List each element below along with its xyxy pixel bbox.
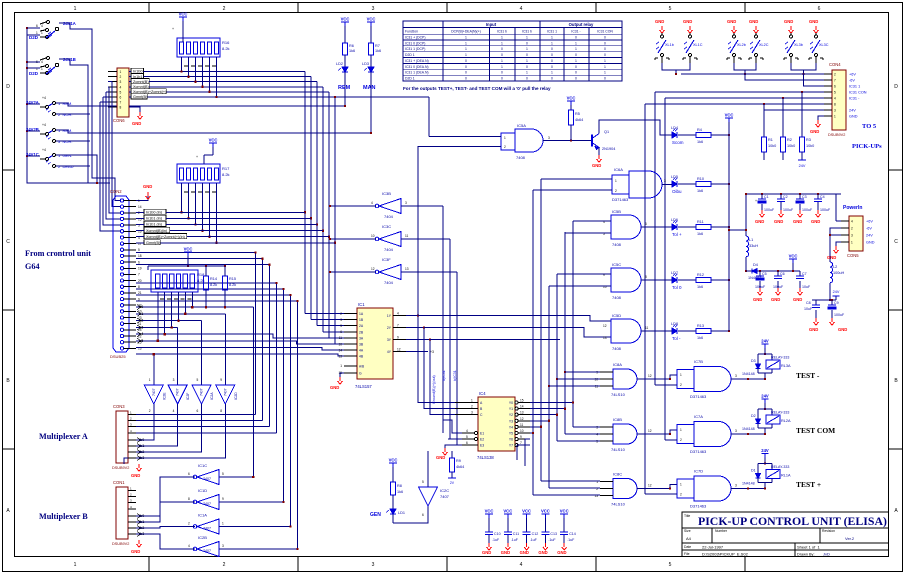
svg-text:GND: GND	[849, 114, 858, 118]
pin	[120, 260, 123, 263]
svg-text:2: 2	[615, 189, 617, 193]
wire 1Y to IC4 A and IC5D	[406, 316, 455, 403]
svg-text:1: 1	[615, 179, 617, 183]
svg-text:2: 2	[223, 6, 226, 12]
gate IC5B 7408	[611, 215, 641, 239]
capacitor C8	[815, 300, 817, 305]
wire IC8B input hooks	[573, 426, 600, 428]
svg-text:1: 1	[680, 428, 682, 432]
pin output 2Y	[393, 327, 406, 329]
svg-text:14: 14	[138, 205, 142, 209]
svg-text:1: 1	[604, 65, 606, 69]
pin	[455, 414, 478, 416]
gate IC5C 7408	[611, 268, 641, 292]
wire CON4 long row 104	[645, 103, 824, 105]
svg-text:1: 1	[465, 41, 467, 45]
svg-text:74LS10: 74LS10	[611, 502, 626, 507]
net label Zcmnt(B)	[131, 79, 149, 84]
wire vertical bus	[297, 301, 299, 549]
svg-text:7407: 7407	[203, 549, 211, 553]
svg-text:1: 1	[680, 373, 682, 377]
svg-text:IC31 1 (DEA.N): IC31 1 (DEA.N)	[405, 71, 429, 75]
svg-text:7407: 7407	[223, 388, 227, 396]
svg-text:5: 5	[834, 90, 836, 94]
svg-text:Date: Date	[684, 545, 691, 549]
wire vertical bus	[310, 77, 312, 320]
svg-text:+: +	[196, 155, 198, 159]
svg-text:R8: R8	[397, 484, 402, 488]
svg-text:GND: GND	[132, 121, 141, 126]
svg-text:A4: A4	[686, 536, 692, 541]
wire	[136, 420, 263, 422]
svg-text:74LS138: 74LS138	[477, 455, 494, 460]
svg-text:C13: C13	[550, 532, 557, 536]
pin	[108, 76, 117, 78]
wire rowC to IC1 pin	[136, 347, 344, 350]
wire	[195, 183, 197, 225]
svg-text:15: 15	[138, 217, 142, 221]
wire row	[129, 76, 131, 78]
svg-text:3: 3	[173, 378, 175, 382]
pin output 1Y	[393, 315, 406, 317]
svg-text:0: 0	[575, 53, 577, 57]
svg-text:D3: D3	[751, 359, 756, 363]
wire CON4 long row 92	[655, 91, 824, 93]
pin	[128, 521, 136, 523]
dashes under RN2	[184, 191, 188, 193]
svg-text:IC31 -: IC31 -	[849, 96, 860, 100]
wire power rail top	[746, 193, 841, 195]
svg-text:10k0: 10k0	[768, 144, 776, 148]
pin output 3Y	[393, 339, 406, 341]
svg-text:6: 6	[197, 409, 199, 413]
wire gate feed vertical x565	[564, 232, 566, 434]
connector CON2	[113, 196, 129, 352]
pin select	[344, 365, 357, 367]
svg-text:Y4: Y4	[509, 425, 513, 429]
wire	[678, 226, 696, 228]
capacitor C5	[759, 270, 761, 272]
svg-text:2Y: 2Y	[387, 326, 392, 330]
wire 3Y to IC4 C	[406, 340, 455, 415]
svg-text:3: 3	[851, 233, 853, 237]
pin enable	[474, 431, 477, 434]
svg-text:7: 7	[138, 273, 140, 277]
pin output Y3	[515, 419, 518, 422]
svg-text:G64: G64	[25, 262, 40, 271]
svg-text:24V: 24V	[761, 394, 769, 399]
svg-text:R1: R1	[768, 138, 773, 142]
svg-text:7408: 7408	[612, 295, 622, 300]
svg-text:6: 6	[818, 6, 821, 12]
svg-text:0: 0	[526, 53, 528, 57]
wire IC2C input	[427, 451, 429, 487]
svg-text:In1b1 (in): In1b1 (in)	[146, 223, 163, 227]
pin	[128, 414, 136, 416]
svg-text:2: 2	[851, 226, 853, 230]
svg-text:15: 15	[520, 399, 524, 403]
svg-text:b(IC31: b(IC31	[442, 370, 446, 381]
dashes under RN1	[184, 65, 188, 67]
wire gate output	[637, 430, 677, 434]
svg-text:1N4148: 1N4148	[742, 372, 755, 376]
svg-text:2: 2	[680, 383, 682, 387]
wire to IC1 input	[329, 337, 344, 339]
svg-text:R5: R5	[575, 112, 580, 116]
resistor R14	[204, 276, 209, 290]
pin	[120, 254, 123, 257]
svg-text:DCP(B)+DEA(N)(+): DCP(B)+DEA(N)(+)	[451, 29, 481, 33]
pin	[120, 217, 123, 220]
net label Gmnt(B)	[144, 240, 160, 245]
svg-text:IC7A: IC7A	[694, 414, 703, 419]
svg-text:IC1A: IC1A	[198, 513, 207, 518]
svg-text:4k64: 4k64	[456, 465, 464, 469]
led LD2	[339, 67, 349, 72]
gate IC6A	[612, 175, 629, 194]
svg-text:13: 13	[405, 267, 409, 271]
resistor R8	[391, 482, 396, 495]
wire rowC to IC1 pin and inverter t1	[136, 354, 344, 356]
svg-text:GND: GND	[143, 184, 152, 189]
svg-text:IC31 CON: IC31 CON	[597, 29, 613, 33]
svg-text:0: 0	[604, 41, 606, 45]
svg-text:Title: Title	[684, 514, 690, 518]
svg-text:C4: C4	[820, 195, 825, 199]
svg-text:1k6: 1k6	[697, 140, 703, 144]
svg-text:GND: GND	[811, 219, 820, 224]
pin	[128, 445, 136, 447]
wire output	[641, 279, 672, 281]
svg-text:DSUB9V2: DSUB9V2	[112, 466, 129, 470]
pin output Y5	[515, 431, 518, 434]
svg-text:1: 1	[526, 59, 528, 63]
svg-text:+: +	[755, 199, 757, 203]
led LD8	[672, 325, 678, 335]
switch 24V2B	[40, 129, 56, 143]
buffer IC1D 7407	[197, 495, 219, 510]
svg-text:IC2B: IC2B	[198, 535, 207, 540]
svg-text:IC31 1 (DCP): IC31 1 (DCP)	[405, 47, 425, 51]
wire	[678, 279, 696, 281]
svg-text:0: 0	[604, 36, 606, 40]
capacitor C3	[799, 193, 801, 195]
svg-text:DSUB25: DSUB25	[110, 354, 126, 359]
pin	[120, 340, 123, 343]
svg-text:5: 5	[669, 6, 672, 12]
svg-text:1: 1	[680, 483, 682, 487]
pin	[120, 223, 123, 226]
svg-text:IC5C: IC5C	[612, 262, 621, 267]
wire vertical from inverters	[442, 206, 444, 433]
svg-text:3Y: 3Y	[387, 338, 392, 342]
svg-text:5: 5	[422, 480, 424, 484]
switch 24V1A	[40, 21, 59, 39]
wire vertical bus	[283, 289, 285, 502]
svg-text:13: 13	[603, 336, 607, 340]
wire CON4 rows	[681, 73, 824, 75]
svg-text:R3: R3	[806, 138, 811, 142]
border reference ticks top/bottom	[148, 3, 150, 13]
svg-text:1k6: 1k6	[697, 232, 703, 236]
svg-text:8.2k: 8.2k	[210, 283, 217, 287]
resistor R9 below IC4	[451, 451, 453, 458]
wire	[711, 183, 729, 185]
svg-text:0: 0	[551, 77, 553, 81]
svg-text:2: 2	[340, 312, 342, 316]
svg-text:2: 2	[504, 145, 506, 149]
pin	[344, 319, 357, 321]
dashes under RN3	[160, 298, 164, 300]
svg-text:8: 8	[138, 285, 140, 289]
connector CON6	[117, 68, 129, 117]
wire	[525, 438, 530, 440]
svg-text:4: 4	[851, 219, 853, 223]
wire	[56, 140, 90, 142]
pin	[128, 451, 136, 453]
svg-text:1: 1	[465, 53, 467, 57]
wire row	[136, 224, 144, 226]
diode D4 1N4007	[746, 270, 752, 272]
svg-text:VCC: VCC	[725, 113, 734, 118]
capacitor C9	[831, 299, 833, 301]
border row ticks left/right	[3, 169, 15, 171]
svg-text:1: 1	[501, 65, 503, 69]
svg-text:20: 20	[138, 279, 142, 283]
pin	[120, 279, 123, 282]
svg-text:XL1C: XL1C	[693, 43, 703, 47]
wire	[209, 183, 211, 237]
svg-text:1: 1	[851, 240, 853, 244]
wire	[148, 265, 225, 267]
svg-text:0: 0	[465, 77, 467, 81]
svg-text:IC3C: IC3C	[382, 224, 391, 229]
svg-text:RL3A: RL3A	[781, 364, 791, 368]
wire input	[219, 548, 298, 550]
svg-text:0: 0	[501, 47, 503, 51]
svg-text:Revision: Revision	[822, 529, 835, 533]
svg-text:VCC: VCC	[567, 96, 576, 101]
led LD6	[672, 221, 678, 231]
svg-text:+4: +4	[42, 123, 46, 127]
svg-text:IC8C: IC8C	[613, 472, 622, 477]
svg-text:1: 1	[74, 6, 77, 12]
capacitor C2	[780, 193, 782, 195]
svg-text:5: 5	[197, 378, 199, 382]
svg-text:IC31 CON: IC31 CON	[849, 90, 867, 94]
wire row	[129, 91, 131, 93]
svg-text:3: 3	[548, 136, 550, 140]
wire	[27, 130, 40, 132]
svg-text:7407: 7407	[440, 494, 450, 499]
capacitor C1	[761, 193, 763, 195]
svg-text:XL3b: XL3b	[794, 43, 803, 47]
switch pair XL1b/XL1C	[660, 26, 665, 33]
svg-text:1N4148: 1N4148	[742, 427, 755, 431]
svg-text:VCC: VCC	[209, 138, 218, 143]
pin	[128, 508, 136, 510]
svg-text:1: 1	[74, 562, 77, 568]
svg-text:24V: 24V	[761, 448, 769, 453]
resistor R4	[696, 133, 711, 138]
svg-text:IC2D: IC2D	[234, 392, 238, 400]
svg-text:GND: GND	[557, 550, 566, 555]
pin	[120, 322, 123, 325]
wire	[530, 414, 557, 416]
wire	[136, 282, 277, 284]
wire	[27, 103, 40, 105]
svg-text:7404: 7404	[384, 247, 394, 252]
led LD3	[365, 67, 375, 72]
wire CON4 row 110 24V	[764, 109, 824, 111]
resistor R6	[343, 43, 348, 55]
svg-text:3: 3	[405, 201, 407, 205]
wire vertical bus	[255, 253, 257, 415]
svg-text:For the outputs TEST+, TEST- a: For the outputs TEST+, TEST- and TEST CO…	[403, 86, 551, 91]
resistor network RN2	[177, 164, 220, 183]
svg-text:Y1: Y1	[509, 407, 513, 411]
svg-text:IC1C: IC1C	[198, 463, 207, 468]
wire output	[641, 226, 672, 228]
wire relay drive	[731, 378, 765, 380]
svg-text:1: 1	[138, 199, 140, 203]
wire	[678, 330, 696, 332]
svg-text:D4: D4	[753, 263, 758, 267]
svg-text:D371463: D371463	[690, 504, 707, 509]
svg-text:0: 0	[501, 53, 503, 57]
ground CON5	[836, 242, 841, 246]
wire row	[136, 236, 144, 238]
connector CON5	[849, 216, 863, 251]
svg-text:CON6: CON6	[113, 118, 125, 123]
svg-text:2: 2	[138, 211, 140, 215]
svg-text:1: 1	[501, 41, 503, 45]
wire 4Y stub	[406, 351, 428, 353]
svg-text:PICK-UPs: PICK-UPs	[852, 143, 882, 150]
net label Xcmnt(B)+Zcmnt(+)(in)	[144, 234, 187, 239]
wire output	[136, 477, 195, 516]
ic IC4 74LS138	[478, 397, 515, 451]
svg-text:LD6: LD6	[671, 218, 678, 222]
svg-text:D2D 1: D2D 1	[405, 77, 415, 81]
wire CON5 +6V	[836, 220, 841, 222]
svg-text:3: 3	[735, 374, 737, 378]
wire	[711, 330, 729, 332]
svg-text:5: 5	[340, 324, 342, 328]
svg-text:0: 0	[604, 77, 606, 81]
wire row	[129, 81, 131, 83]
pin	[344, 343, 357, 345]
connector CON3	[116, 411, 128, 463]
wire E1	[443, 420, 462, 433]
svg-text:R4: R4	[697, 128, 702, 132]
svg-text:IC31 0 (DEA.N): IC31 0 (DEA.N)	[405, 65, 429, 69]
wire E3 ground	[445, 445, 462, 448]
svg-text:C: C	[894, 239, 898, 245]
wire vertical bus	[334, 97, 336, 344]
svg-text:GND: GND	[753, 297, 762, 302]
svg-text:XL3C: XL3C	[819, 43, 829, 47]
svg-text:RELAY-333: RELAY-333	[771, 411, 789, 415]
svg-text:4: 4	[371, 201, 373, 205]
svg-text:0: 0	[551, 53, 553, 57]
wire vertical bus	[316, 82, 318, 326]
svg-text:12: 12	[648, 374, 652, 378]
svg-text:VCC: VCC	[341, 17, 350, 22]
svg-text:GND: GND	[784, 19, 793, 24]
wire MAN line	[56, 130, 371, 133]
svg-text:1: 1	[834, 114, 836, 118]
svg-text:.1uF: .1uF	[548, 538, 556, 542]
wire rowC b3 to inverter t2	[136, 327, 178, 329]
svg-text:IC31 1: IC31 1	[547, 29, 557, 33]
wire IC8A input hooks	[565, 371, 600, 373]
resistor R11	[696, 225, 711, 230]
svg-text:IC1D: IC1D	[198, 488, 207, 493]
wire 2Y to IC4 B and IC5D	[406, 328, 455, 409]
svg-text:2: 2	[471, 405, 473, 409]
pin	[120, 205, 123, 208]
svg-text:3: 3	[372, 6, 375, 12]
wire output	[136, 527, 195, 529]
svg-text:74LS157: 74LS157	[355, 384, 372, 389]
wire inputs	[610, 324, 612, 326]
led LD1	[387, 509, 397, 514]
svg-text:11: 11	[520, 423, 524, 427]
net label In1b0	[131, 68, 144, 73]
svg-text:IC8B: IC8B	[613, 417, 622, 422]
svg-text:GND: GND	[771, 297, 780, 302]
svg-text:In1b0 (in): In1b0 (in)	[146, 211, 163, 215]
wire input	[219, 501, 284, 503]
svg-text:GND: GND	[436, 455, 445, 460]
svg-text:3: 3	[372, 562, 375, 568]
svg-text:C6: C6	[780, 272, 785, 276]
svg-text:VCC: VCC	[522, 509, 531, 514]
svg-text:GND: GND	[501, 550, 510, 555]
svg-text:9: 9	[220, 378, 222, 382]
svg-text:LD3: LD3	[362, 62, 369, 66]
wire IC5A output to Q1	[543, 140, 592, 142]
svg-text:R12: R12	[697, 273, 704, 277]
svg-text:R13: R13	[697, 324, 704, 328]
svg-text:1k6: 1k6	[697, 336, 703, 340]
inductor L2	[830, 262, 833, 283]
svg-text:1: 1	[526, 36, 528, 40]
svg-text:1: 1	[604, 59, 606, 63]
svg-text:Function: Function	[405, 29, 418, 33]
svg-text:1A: 1A	[359, 312, 364, 316]
pin	[824, 115, 832, 117]
svg-text:7404: 7404	[384, 214, 394, 219]
pin output 4Y	[393, 351, 406, 353]
svg-text:13: 13	[594, 494, 598, 498]
svg-text:1N4148: 1N4148	[742, 482, 755, 486]
svg-text:0: 0	[465, 59, 467, 63]
svg-text:2: 2	[834, 72, 836, 76]
led LD5	[672, 178, 678, 188]
svg-text:D:\S2003\PICKUP_E.S02: D:\S2003\PICKUP_E.S02	[702, 552, 749, 557]
diode D3 1N4148	[756, 364, 761, 369]
svg-text:8: 8	[834, 102, 836, 106]
svg-text:Multiplexer A: Multiplexer A	[39, 432, 88, 441]
pin	[120, 316, 123, 319]
svg-text:8: 8	[120, 106, 122, 110]
svg-text:Output relay: Output relay	[569, 22, 594, 27]
svg-text:File: File	[684, 552, 690, 556]
svg-text:IC31 -: IC31 -	[571, 29, 580, 33]
wire CON5 -6V	[830, 228, 841, 235]
